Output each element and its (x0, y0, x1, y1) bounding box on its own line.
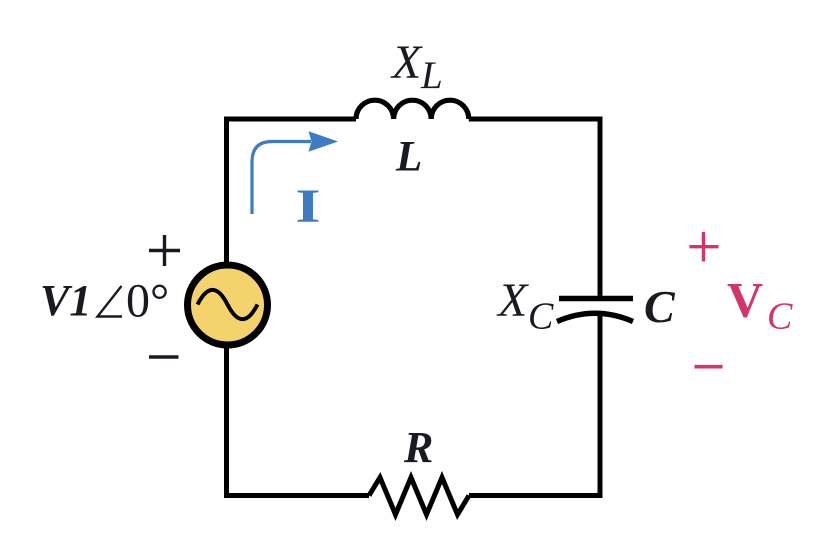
svg-text:C: C (644, 281, 676, 332)
wire: right wire below capacitor + bottom-right corner (469, 314, 600, 496)
wire: bottom wire left segment + left wire lower segment to source bottom (227, 346, 370, 496)
angle symbol (98, 286, 123, 317)
current arrow I (blue) (252, 142, 311, 215)
capacitor C top plate (559, 296, 633, 302)
label XL (390, 36, 443, 97)
source V1 circle (188, 265, 268, 345)
label V1 angle 0deg (40, 275, 169, 328)
svg-text:L: L (395, 134, 422, 181)
VC plus sign (pink) (690, 232, 719, 262)
svg-text:0°: 0° (126, 275, 169, 328)
capacitor C bottom curved plate (557, 313, 633, 321)
svg-text:X: X (390, 36, 423, 89)
svg-text:V1: V1 (40, 276, 91, 325)
svg-text:R: R (403, 423, 433, 472)
svg-text:L: L (420, 54, 443, 97)
resistor R zigzag (369, 478, 469, 515)
VC minus sign (pink) (695, 365, 723, 369)
svg-text:I: I (295, 180, 320, 233)
source sine wave (198, 290, 258, 319)
inductor L (3 humps) (356, 100, 469, 119)
svg-text:C: C (767, 296, 793, 338)
svg-text:X: X (496, 274, 529, 327)
svg-text:V: V (727, 272, 763, 328)
label XC (496, 274, 554, 338)
label VC (pink) (727, 272, 793, 338)
source plus sign (149, 235, 180, 266)
source minus sign (149, 355, 179, 358)
arrowhead (309, 131, 339, 152)
wire: top-left corner, left wire upper segment to source top (227, 119, 357, 264)
svg-text:C: C (528, 296, 554, 338)
wire: top wire right segment + right wire down to capacitor (469, 119, 600, 296)
